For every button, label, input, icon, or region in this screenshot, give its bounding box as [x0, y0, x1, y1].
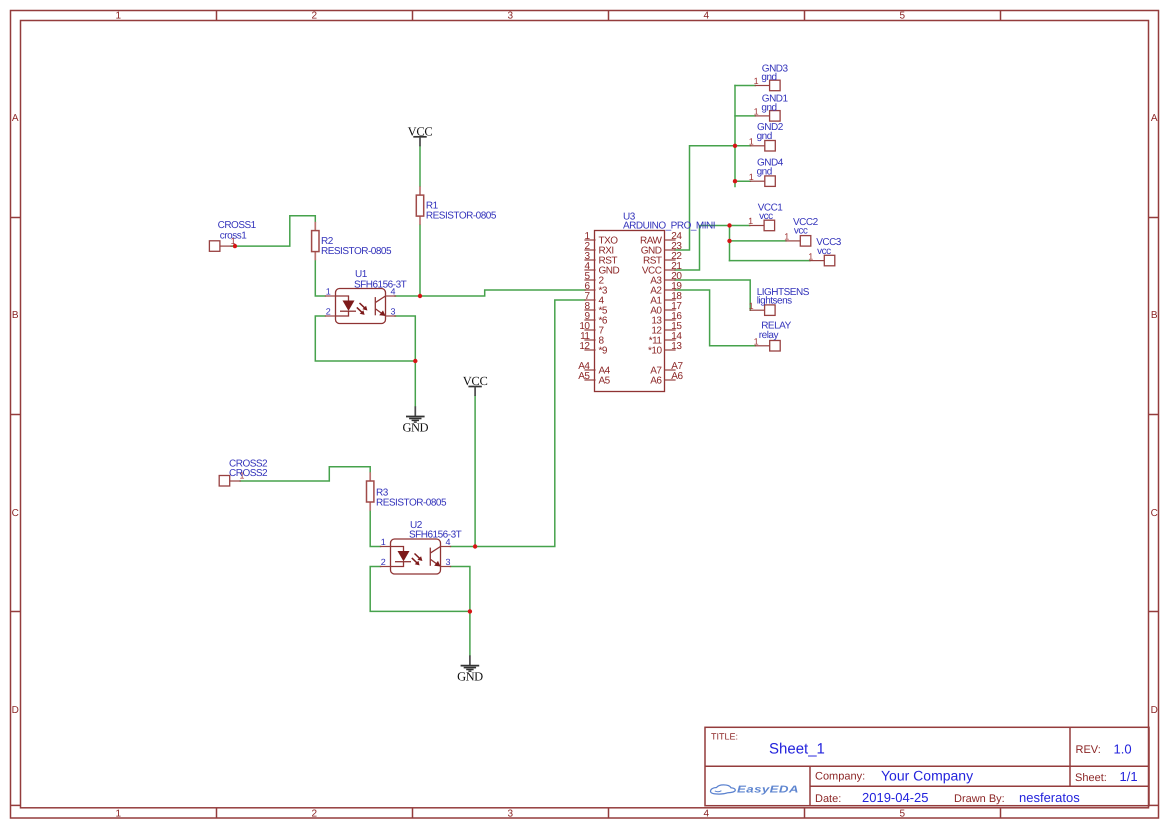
svg-text:1: 1 [808, 251, 813, 261]
svg-text:ARDUINO_PRO_MINI: ARDUINO_PRO_MINI [623, 220, 715, 231]
svg-text:REV:: REV: [1076, 744, 1101, 756]
svg-text:1: 1 [749, 172, 754, 182]
svg-text:A: A [1151, 113, 1158, 124]
svg-text:B: B [1151, 310, 1158, 321]
svg-text:nesferatos: nesferatos [1019, 790, 1080, 805]
svg-text:D: D [1151, 705, 1158, 716]
svg-text:1: 1 [754, 107, 759, 117]
svg-text:*10: *10 [648, 346, 662, 357]
svg-text:cross1: cross1 [220, 230, 247, 241]
svg-text:gnd: gnd [761, 102, 776, 113]
svg-text:gnd: gnd [757, 167, 772, 178]
svg-text:SFH6156-3T: SFH6156-3T [409, 530, 462, 541]
svg-text:C: C [1151, 508, 1158, 519]
svg-text:A: A [12, 113, 19, 124]
svg-text:D: D [12, 705, 19, 716]
svg-text:TITLE:: TITLE: [711, 732, 738, 742]
svg-text:3: 3 [507, 10, 513, 21]
svg-text:EasyEDA: EasyEDA [737, 785, 799, 796]
svg-text:vcc: vcc [794, 226, 808, 237]
svg-text:1: 1 [749, 137, 754, 147]
svg-text:*9: *9 [599, 346, 608, 357]
svg-text:vcc: vcc [759, 211, 773, 222]
svg-text:U1: U1 [355, 269, 368, 280]
svg-text:gnd: gnd [761, 72, 776, 83]
svg-text:C: C [12, 508, 19, 519]
svg-text:1: 1 [749, 301, 754, 311]
svg-text:1/1: 1/1 [1120, 769, 1138, 784]
svg-text:2019-04-25: 2019-04-25 [862, 790, 929, 805]
svg-text:A5: A5 [578, 371, 590, 382]
svg-text:vcc: vcc [817, 246, 831, 257]
svg-text:RESISTOR-0805: RESISTOR-0805 [376, 497, 447, 508]
svg-text:1: 1 [748, 216, 753, 226]
svg-text:A6: A6 [671, 371, 683, 382]
svg-text:1: 1 [754, 76, 759, 86]
svg-text:Date:: Date: [815, 793, 841, 805]
svg-text:4: 4 [703, 10, 709, 21]
svg-text:5: 5 [899, 10, 905, 21]
svg-text:Drawn By:: Drawn By: [954, 793, 1005, 805]
svg-text:B: B [12, 310, 19, 321]
svg-text:Your Company: Your Company [881, 768, 973, 784]
svg-text:A6: A6 [650, 376, 662, 387]
svg-text:12: 12 [579, 341, 590, 352]
svg-text:gnd: gnd [757, 131, 772, 142]
svg-text:1: 1 [115, 10, 121, 21]
svg-text:Sheet_1: Sheet_1 [769, 741, 825, 758]
svg-text:1.0: 1.0 [1114, 742, 1132, 757]
svg-text:Company:: Company: [815, 771, 865, 783]
svg-text:Sheet:: Sheet: [1075, 772, 1107, 784]
svg-text:RESISTOR-0805: RESISTOR-0805 [426, 210, 497, 221]
svg-text:13: 13 [671, 341, 682, 352]
svg-text:RESISTOR-0805: RESISTOR-0805 [321, 246, 392, 257]
svg-text:SFH6156-3T: SFH6156-3T [354, 280, 407, 291]
svg-text:A5: A5 [599, 376, 611, 387]
svg-text:lightsens: lightsens [757, 295, 792, 306]
svg-text:CROSS2: CROSS2 [229, 468, 268, 479]
svg-text:relay: relay [759, 330, 779, 341]
svg-text:1: 1 [784, 232, 789, 242]
svg-text:2: 2 [311, 10, 317, 21]
